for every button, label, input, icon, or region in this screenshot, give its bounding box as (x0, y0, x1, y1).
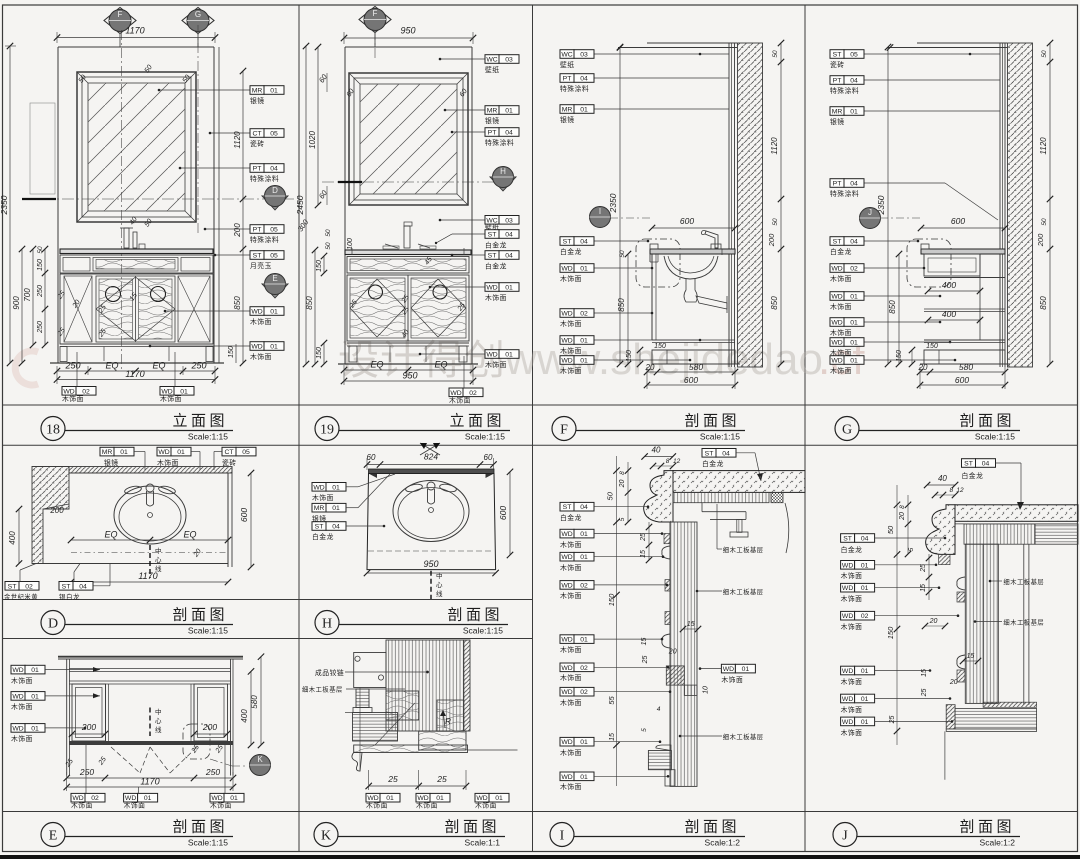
panelH counter top dark band (369, 469, 495, 478)
panelG top dim 600 (918, 216, 1008, 231)
svg-text:850: 850 (888, 300, 897, 314)
svg-text:心: 心 (155, 717, 162, 725)
panelG label ST-04 (830, 237, 919, 256)
svg-text:木饰面: 木饰面 (841, 622, 863, 631)
panelD sink oval (114, 486, 186, 544)
panel18 bottom dim row EQ (54, 361, 218, 385)
panelI bottom molding (648, 745, 675, 786)
svg-text:15: 15 (687, 621, 695, 628)
svg-text:700: 700 (23, 288, 32, 302)
svg-text:40: 40 (938, 474, 947, 483)
title I 剖面图 (550, 819, 745, 848)
svg-text:600: 600 (951, 216, 965, 226)
title 18 立面图 (41, 413, 233, 442)
panelG ceiling lines (887, 43, 1007, 51)
svg-text:03: 03 (505, 57, 513, 64)
svg-text:PT: PT (253, 227, 262, 234)
panelD top label WD-01 (157, 447, 200, 470)
panelJ label WD-01 a (841, 561, 938, 581)
svg-text:J: J (868, 208, 872, 217)
panel19 left dims 2450 1020 (295, 43, 330, 367)
panelJ bottom assembly (946, 702, 1036, 731)
panel19 centerlines (322, 30, 510, 182)
svg-text:Scale:1:2: Scale:1:2 (705, 838, 741, 848)
svg-text:05: 05 (270, 253, 278, 260)
panel18 bottom label WD-01 (160, 352, 194, 403)
svg-text:580: 580 (250, 695, 259, 709)
svg-text:WD: WD (561, 689, 572, 696)
svg-text:1170: 1170 (138, 571, 157, 581)
svg-text:木饰面: 木饰面 (250, 352, 272, 361)
panelK R arrow (440, 710, 451, 728)
svg-text:Scale:1:2: Scale:1:2 (980, 838, 1016, 848)
svg-text:01: 01 (850, 109, 858, 116)
svg-text:04: 04 (332, 524, 340, 531)
svg-text:MR: MR (252, 88, 263, 95)
panelH label ST-04 (312, 522, 385, 541)
svg-text:E: E (49, 829, 58, 844)
svg-text:50: 50 (1041, 50, 1048, 58)
svg-text:01: 01 (580, 531, 588, 538)
svg-text:WD: WD (313, 484, 324, 491)
svg-text:600: 600 (955, 375, 969, 385)
svg-text:04: 04 (270, 166, 278, 173)
svg-text:950: 950 (423, 559, 438, 569)
svg-text:WD: WD (831, 294, 842, 301)
panelE right recess (191, 684, 228, 745)
svg-text:ST: ST (843, 536, 852, 543)
panelF top dim 600 (649, 216, 738, 231)
panel19 label WC-03 lower (439, 216, 519, 232)
panel19 countertop (345, 248, 471, 255)
svg-text:01: 01 (580, 554, 588, 561)
panel19 label WD-01 door (429, 283, 519, 302)
svg-text:木饰面: 木饰面 (475, 801, 497, 810)
panel19 top dim 950 (341, 26, 476, 45)
svg-text:600: 600 (498, 506, 508, 520)
svg-text:细木工板基层: 细木工板基层 (302, 685, 343, 694)
svg-text:150: 150 (626, 350, 633, 362)
grid vertical divider x532.5 (532, 5, 534, 852)
svg-text:木饰面: 木饰面 (560, 591, 582, 600)
svg-text:01: 01 (120, 449, 128, 456)
panelG label WD-01 a (830, 292, 941, 311)
panelE door swing dashed (111, 747, 197, 773)
panelE K callout (183, 724, 248, 766)
svg-text:ST: ST (62, 583, 71, 590)
panelF right dims (617, 40, 784, 367)
panelF label WD-01 c (560, 356, 691, 375)
panel19 label WD-01 plinth (419, 350, 519, 369)
panelH faucet plan (405, 482, 457, 504)
svg-text:25: 25 (436, 774, 447, 784)
svg-text:K: K (257, 755, 263, 764)
svg-text:白金龙: 白金龙 (962, 471, 984, 480)
panelE frame structure (67, 659, 233, 776)
svg-text:15: 15 (967, 653, 975, 660)
svg-text:MR: MR (487, 108, 498, 115)
panelK dims 25 25 (366, 770, 470, 790)
panel18 cabinet body (60, 274, 213, 344)
svg-text:木饰面: 木饰面 (157, 458, 179, 467)
svg-text:01: 01 (580, 358, 588, 365)
svg-text:WD: WD (842, 613, 853, 620)
panelF cabinet section (652, 254, 735, 340)
svg-text:WD: WD (723, 666, 734, 673)
panel19 marker F diamond (359, 7, 391, 48)
svg-text:200: 200 (1036, 233, 1045, 247)
svg-text:WD: WD (561, 338, 572, 345)
svg-text:5: 5 (619, 517, 626, 521)
svg-text:WD: WD (561, 582, 572, 589)
panelF bottom dims (644, 362, 738, 389)
svg-text:木饰面: 木饰面 (830, 328, 852, 337)
svg-text:PT: PT (833, 181, 842, 188)
svg-text:04: 04 (861, 536, 869, 543)
panel18 label ST-05 (214, 251, 284, 270)
svg-text:WD: WD (251, 344, 262, 351)
svg-text:01: 01 (742, 666, 750, 673)
svg-text:01: 01 (386, 795, 394, 802)
svg-text:12: 12 (673, 458, 681, 465)
svg-text:10: 10 (702, 686, 709, 694)
svg-text:5: 5 (641, 728, 648, 732)
svg-text:150: 150 (37, 259, 44, 271)
svg-text:200: 200 (81, 722, 96, 732)
svg-text:600: 600 (684, 375, 698, 385)
panel18 faucet (120, 228, 145, 249)
panelG plinth (896, 343, 1010, 368)
panelF sink bowl section (664, 249, 727, 313)
panel18 label WD-01 door (164, 307, 284, 326)
svg-text:1170: 1170 (125, 369, 144, 379)
panelG right dims (888, 40, 1053, 367)
svg-text:8: 8 (666, 458, 670, 465)
svg-text:05: 05 (242, 449, 250, 456)
panelJ right frame lines (1024, 544, 1029, 705)
panelJ left labels (841, 534, 947, 554)
svg-text:01: 01 (580, 338, 588, 345)
svg-text:01: 01 (850, 340, 858, 347)
svg-text:02: 02 (580, 689, 588, 696)
svg-text:01: 01 (861, 585, 869, 592)
svg-text:600: 600 (680, 216, 694, 226)
title 19 立面图 (315, 413, 510, 442)
panelI basin curve (785, 503, 789, 553)
svg-text:ST: ST (563, 504, 572, 511)
panelI label WD-02 a (560, 581, 668, 600)
panelI label 细木工板基层 c (679, 732, 764, 741)
svg-text:ST: ST (833, 239, 842, 246)
svg-text:02: 02 (580, 311, 588, 318)
panelF dim 2350 (608, 44, 623, 367)
svg-text:50: 50 (772, 218, 779, 226)
svg-text:WD: WD (561, 531, 572, 538)
svg-text:01: 01 (270, 344, 278, 351)
svg-text:ST: ST (705, 450, 714, 457)
panelF label WC-03 (560, 50, 729, 69)
svg-text:ST: ST (488, 232, 497, 239)
svg-text:特殊涂料: 特殊涂料 (560, 84, 589, 93)
svg-text:WD: WD (561, 665, 572, 672)
panel19 mirror frame (349, 73, 468, 205)
svg-text:月亮玉: 月亮玉 (250, 261, 272, 270)
svg-text:1120: 1120 (1039, 137, 1048, 155)
svg-text:WD: WD (561, 358, 572, 365)
panelG countertop section (921, 244, 1005, 276)
svg-text:白金龙: 白金龙 (560, 513, 582, 522)
panelJ mid dims (921, 618, 981, 697)
svg-text:02: 02 (469, 390, 477, 397)
svg-text:950: 950 (402, 371, 417, 381)
svg-text:白金龙: 白金龙 (830, 247, 852, 256)
svg-text:ST: ST (833, 52, 842, 59)
svg-text:K: K (321, 829, 331, 844)
svg-text:60: 60 (484, 453, 493, 462)
panelH bottom dim 950 (364, 559, 499, 576)
panelI label WD-01 a (560, 529, 663, 549)
svg-text:WC: WC (561, 52, 572, 59)
svg-text:心: 心 (436, 581, 443, 589)
svg-text:WD: WD (561, 554, 572, 561)
svg-text:25: 25 (921, 689, 928, 698)
svg-text:白金龙: 白金龙 (485, 262, 507, 271)
svg-text:50: 50 (886, 525, 895, 534)
svg-text:01: 01 (31, 725, 39, 732)
svg-text:MR: MR (102, 449, 113, 456)
svg-text:150: 150 (926, 343, 938, 350)
panelG bottom dims (917, 362, 1008, 389)
svg-text:04: 04 (722, 450, 730, 457)
svg-text:金世纪米黄: 金世纪米黄 (4, 592, 38, 601)
svg-text:150: 150 (316, 260, 323, 272)
svg-text:04: 04 (850, 78, 858, 85)
panel19 marker H (490, 167, 516, 192)
svg-text:WD: WD (831, 266, 842, 273)
panel18 plinth (60, 344, 213, 362)
svg-text:01: 01 (505, 108, 513, 115)
panelE top wall line (58, 657, 243, 659)
panel18 marker E (262, 274, 288, 299)
panelD centerline text (150, 545, 162, 578)
svg-text:WD: WD (561, 774, 572, 781)
panelJ label WD-01 b (841, 583, 941, 603)
svg-text:850: 850 (770, 296, 779, 310)
svg-text:8: 8 (899, 505, 906, 509)
svg-text:CT: CT (252, 131, 261, 138)
panelG label WD-01 b (830, 318, 941, 337)
svg-text:WD: WD (161, 388, 172, 395)
svg-text:银镜: 银镜 (250, 96, 265, 105)
svg-text:2450: 2450 (295, 195, 305, 215)
panelJ centerline bottom (944, 731, 946, 779)
svg-text:WD: WD (125, 795, 136, 802)
svg-text:01: 01 (436, 795, 444, 802)
svg-text:WD: WD (561, 739, 572, 746)
svg-text:50: 50 (772, 50, 779, 58)
panel19 plinth (347, 343, 469, 362)
panelD wall top hatched (69, 467, 232, 474)
panel18 marker F diamond (104, 8, 136, 48)
svg-text:20: 20 (929, 618, 938, 625)
svg-text:40: 40 (652, 446, 661, 455)
svg-text:WD: WD (842, 585, 853, 592)
panel19 label WC-03 top (439, 55, 519, 74)
title J 剖面图 (833, 819, 1020, 848)
svg-text:01: 01 (31, 667, 39, 674)
svg-text:E: E (272, 274, 277, 283)
svg-text:WD: WD (158, 449, 169, 456)
svg-text:1120: 1120 (770, 137, 779, 155)
svg-text:25: 25 (387, 774, 398, 784)
svg-text:250: 250 (79, 767, 94, 777)
svg-text:8: 8 (949, 487, 953, 494)
svg-text:剖面图: 剖面图 (684, 413, 740, 430)
svg-text:ST: ST (964, 461, 973, 468)
svg-text:04: 04 (505, 232, 513, 239)
svg-text:J: J (842, 829, 848, 844)
panelJ dim chain left (886, 485, 932, 745)
svg-text:04: 04 (79, 583, 87, 590)
svg-text:PT: PT (833, 78, 842, 85)
panelH label WD-01 (312, 474, 395, 502)
panelG label MR-01 (830, 107, 1000, 126)
svg-text:ST: ST (315, 524, 324, 531)
panelE bottom dims 250 1170 (64, 767, 237, 791)
svg-text:01: 01 (332, 484, 340, 491)
panel18 marker G diamond (182, 8, 214, 48)
svg-text:特殊涂料: 特殊涂料 (830, 86, 859, 95)
svg-text:木饰面: 木饰面 (11, 702, 33, 711)
svg-text:15: 15 (921, 669, 928, 677)
svg-text:木饰面: 木饰面 (560, 645, 582, 654)
panel18 dims 900 700 (12, 246, 48, 366)
svg-text:H: H (322, 617, 332, 632)
svg-text:木饰面: 木饰面 (560, 319, 582, 328)
svg-text:20: 20 (645, 363, 655, 372)
panelD EQ dims (68, 530, 231, 544)
panel18 centerlines (22, 25, 295, 372)
svg-text:G: G (195, 10, 201, 19)
svg-text:细木工板基层: 细木工板基层 (723, 732, 764, 741)
svg-text:18: 18 (46, 423, 60, 438)
svg-text:瓷砖: 瓷砖 (830, 60, 845, 69)
svg-text:EQ: EQ (183, 530, 196, 540)
panelJ stone slab (955, 505, 1078, 524)
panelH label MR-01 (312, 474, 390, 523)
panelE label WD-01 a (11, 665, 100, 685)
svg-text:白金龙: 白金龙 (841, 545, 863, 554)
svg-text:木饰面: 木饰面 (560, 673, 582, 682)
svg-text:50: 50 (619, 250, 626, 258)
svg-text:瓷砖: 瓷砖 (222, 458, 237, 467)
panelI label WD-02 b (560, 663, 669, 682)
svg-text:EQ: EQ (152, 361, 165, 371)
panelE centerline text (150, 707, 162, 736)
svg-text:壁纸: 壁纸 (485, 65, 500, 74)
svg-text:WD: WD (842, 719, 853, 726)
panel18 top dim 1170 (54, 26, 218, 44)
svg-text:05: 05 (270, 131, 278, 138)
svg-text:250: 250 (205, 767, 220, 777)
panel18 dashed recess left (30, 103, 55, 194)
panel19 wall outline (338, 47, 478, 364)
svg-text:03: 03 (580, 52, 588, 59)
svg-text:200: 200 (767, 233, 776, 247)
svg-text:15: 15 (641, 638, 648, 646)
svg-text:60: 60 (367, 453, 376, 462)
svg-text:木饰面: 木饰面 (449, 396, 471, 405)
svg-text:剖面图: 剖面图 (172, 607, 228, 624)
svg-text:银镜: 银镜 (104, 458, 119, 467)
panelE right dims 580 400 (240, 654, 264, 749)
svg-text:木饰面: 木饰面 (560, 748, 582, 757)
svg-text:木饰面: 木饰面 (560, 366, 582, 375)
svg-text:250: 250 (190, 361, 206, 371)
svg-text:剖面图: 剖面图 (447, 607, 503, 624)
panel19 left dims 100 50 150 850 (305, 229, 354, 367)
panel18 marker D (262, 186, 288, 211)
svg-text:木饰面: 木饰面 (560, 540, 582, 549)
svg-text:WD: WD (831, 320, 842, 327)
svg-text:银白龙: 银白龙 (59, 592, 80, 601)
svg-text:01: 01 (31, 693, 39, 700)
svg-text:特殊涂料: 特殊涂料 (830, 189, 859, 198)
panelJ plywood band under slab (964, 524, 1078, 544)
panelH top dims 60 824 60 (364, 452, 497, 471)
panelD dim 1170 (68, 571, 231, 585)
svg-text:400: 400 (240, 709, 249, 723)
panelG label PT-04 top (830, 76, 1000, 95)
panelH section cut mark (420, 443, 440, 455)
svg-text:WD: WD (561, 266, 572, 273)
svg-text:WD: WD (12, 725, 23, 732)
panel18 right dim 1120 200 850 150 (228, 68, 246, 366)
svg-text:MR: MR (314, 505, 325, 512)
panelF plinth (626, 343, 740, 368)
svg-text:8: 8 (619, 471, 626, 475)
svg-text:WD: WD (842, 696, 853, 703)
panel19 label ST-04 apron (451, 251, 519, 271)
panel18 wall outline (50, 47, 224, 363)
svg-text:PT: PT (563, 76, 572, 83)
panelJ label WD-01 e (841, 717, 954, 737)
panel18 mirror frame (77, 72, 196, 222)
svg-text:木饰面: 木饰面 (11, 676, 33, 685)
svg-text:01: 01 (850, 358, 858, 365)
panelE left recess (72, 684, 109, 745)
svg-text:01: 01 (495, 795, 503, 802)
panelF ceiling lines (617, 43, 737, 51)
svg-text:设计得创: 设计得创 (338, 337, 506, 383)
panelG callout rounded rect (907, 239, 951, 287)
panelD right dim 600 (239, 470, 254, 570)
svg-text:木饰面: 木饰面 (841, 728, 863, 737)
panelJ label 细木工板基层 a (989, 577, 1044, 586)
svg-text:05: 05 (850, 52, 858, 59)
svg-text:1170: 1170 (125, 26, 144, 36)
svg-text:01: 01 (580, 266, 588, 273)
panelI vertical board (670, 522, 697, 786)
svg-text:细木工板基层: 细木工板基层 (1003, 618, 1044, 627)
svg-text:木饰面: 木饰面 (560, 563, 582, 572)
panelE bottom label WD-01 a (124, 778, 158, 810)
panelD bottom label ST-02 (4, 564, 39, 602)
svg-text:木饰面: 木饰面 (841, 594, 863, 603)
svg-text:1120: 1120 (233, 131, 242, 149)
svg-text:50: 50 (325, 229, 332, 237)
svg-text:中: 中 (155, 707, 162, 716)
